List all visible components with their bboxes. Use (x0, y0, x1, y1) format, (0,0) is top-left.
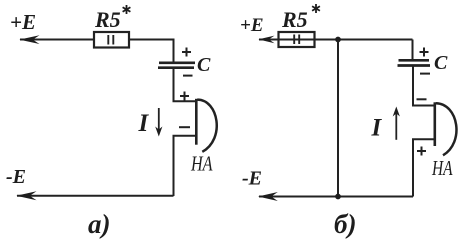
wire -E rail bottom right (259, 196, 413, 198)
svg-text:R5: R5 (281, 7, 308, 32)
asterisk on R5 (right) (312, 4, 320, 13)
junction dot bottom (right) (335, 194, 341, 200)
svg-text:-E: -E (6, 166, 26, 188)
plus sign of capacitor (right) (420, 48, 429, 57)
capacitor C (right, polarized) (398, 60, 431, 65)
svg-text:C: C (434, 52, 448, 74)
arrow on +E rail right (pointing left) (258, 36, 274, 44)
label C (left) (197, 54, 211, 76)
wire HA bottom lead down to rail (left) (174, 136, 197, 196)
label HA (right) (431, 156, 452, 180)
node +E label (right) (240, 15, 264, 36)
svg-text:I: I (371, 115, 383, 142)
minus sign of capacitor (left) (183, 75, 193, 77)
capacitor C (left, polarized) (158, 63, 195, 68)
node -E label (right) (242, 168, 262, 190)
telephone HA (right) (435, 102, 457, 155)
wire -E rail bottom left (17, 195, 174, 197)
resistor R5* (right) (279, 32, 315, 47)
label HA (left) (190, 152, 212, 176)
label C (right) (434, 52, 448, 74)
junction dot top (right) (335, 37, 341, 43)
telephone HA (left) (196, 99, 216, 152)
wire junction vertical (right) (337, 40, 339, 197)
wire capacitor to HA top lead (left) (174, 68, 197, 102)
wire resistor to corner (left) (129, 40, 174, 63)
wire corner down to capacitor (right) (412, 40, 414, 60)
plus sign at HA top lead (left) (180, 92, 189, 101)
svg-text:НА: НА (190, 152, 212, 176)
current arrow I down (left) (155, 108, 162, 137)
wire capacitor to HA top lead (right) (413, 66, 435, 106)
svg-text:R5: R5 (94, 7, 121, 32)
arrow on -E rail (pointing left) (16, 191, 36, 200)
wire +E rail top left (20, 39, 94, 41)
node +E label (left) (10, 10, 36, 34)
label R5 (right) (281, 7, 308, 32)
wire +E rail top right (259, 39, 413, 41)
plus sign at HA bottom lead (right) (417, 147, 426, 156)
label a) (88, 209, 111, 239)
plus sign of capacitor (left) (182, 48, 191, 57)
wire HA bottom lead down to rail (right) (413, 139, 435, 196)
label R5 (left) (94, 7, 121, 32)
svg-text:а): а) (88, 209, 111, 239)
current arrow I up (right) (393, 107, 400, 140)
resistor R5* (left) (94, 32, 129, 48)
svg-text:-E: -E (242, 168, 262, 190)
svg-text:НА: НА (431, 156, 452, 180)
label I (left) (138, 110, 150, 137)
asterisk on R5 (left) (123, 5, 131, 14)
label I (right) (371, 115, 383, 142)
node -E label (left) (6, 166, 26, 188)
svg-text:б): б) (334, 209, 356, 239)
arrow on -E rail right (pointing left) (258, 192, 278, 201)
svg-text:C: C (197, 54, 211, 76)
minus sign at HA top lead (right) (417, 98, 427, 100)
svg-text:+E: +E (10, 10, 36, 34)
minus sign of capacitor (right) (420, 73, 430, 75)
arrow on +E rail (pointing left) (19, 35, 39, 44)
svg-text:+E: +E (240, 15, 264, 36)
minus sign at HA bottom lead (left) (179, 126, 190, 128)
label b) (334, 209, 356, 239)
svg-text:I: I (138, 110, 150, 137)
